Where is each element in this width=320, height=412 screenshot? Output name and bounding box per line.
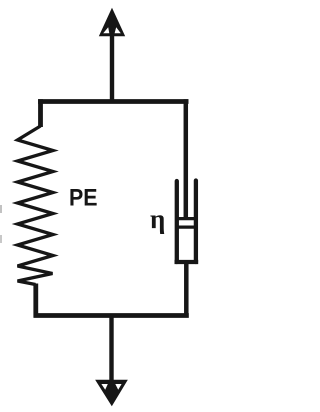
bottom force arrow shaft bbox=[109, 316, 113, 388]
scan artifact: left edge smudge B bbox=[0, 235, 2, 243]
wire: left vertical (spring bottom to bottom bar) bbox=[33, 284, 38, 318]
wire: dashpot bottom rod to bottom bar bbox=[184, 262, 189, 318]
dashpot cylinder left wall bbox=[175, 181, 179, 262]
spring PE (zigzag) bbox=[18, 126, 54, 285]
svg-text:η: η bbox=[150, 204, 165, 234]
bottom force arrowhead (solid triangle with white pockets) bbox=[97, 381, 127, 405]
dashpot piston plate lower line bbox=[175, 226, 198, 229]
wire: bottom horizontal bar bbox=[34, 313, 189, 318]
dashpot piston plate upper line bbox=[175, 217, 198, 220]
wire: left vertical (top stub to spring) bbox=[38, 99, 43, 127]
scan artifact: left edge smudge A bbox=[0, 205, 2, 213]
dashpot cylinder right wall bbox=[194, 181, 198, 263]
dashpot cylinder bottom cap bbox=[175, 260, 199, 264]
svg-text:PE: PE bbox=[69, 185, 98, 212]
wire: right vertical (top bar to dashpot piston rod) bbox=[184, 99, 189, 218]
wire: top horizontal bar bbox=[38, 99, 188, 104]
top force arrow shaft bbox=[110, 20, 114, 101]
top force arrowhead (solid triangle with white pockets) bbox=[100, 10, 124, 36]
